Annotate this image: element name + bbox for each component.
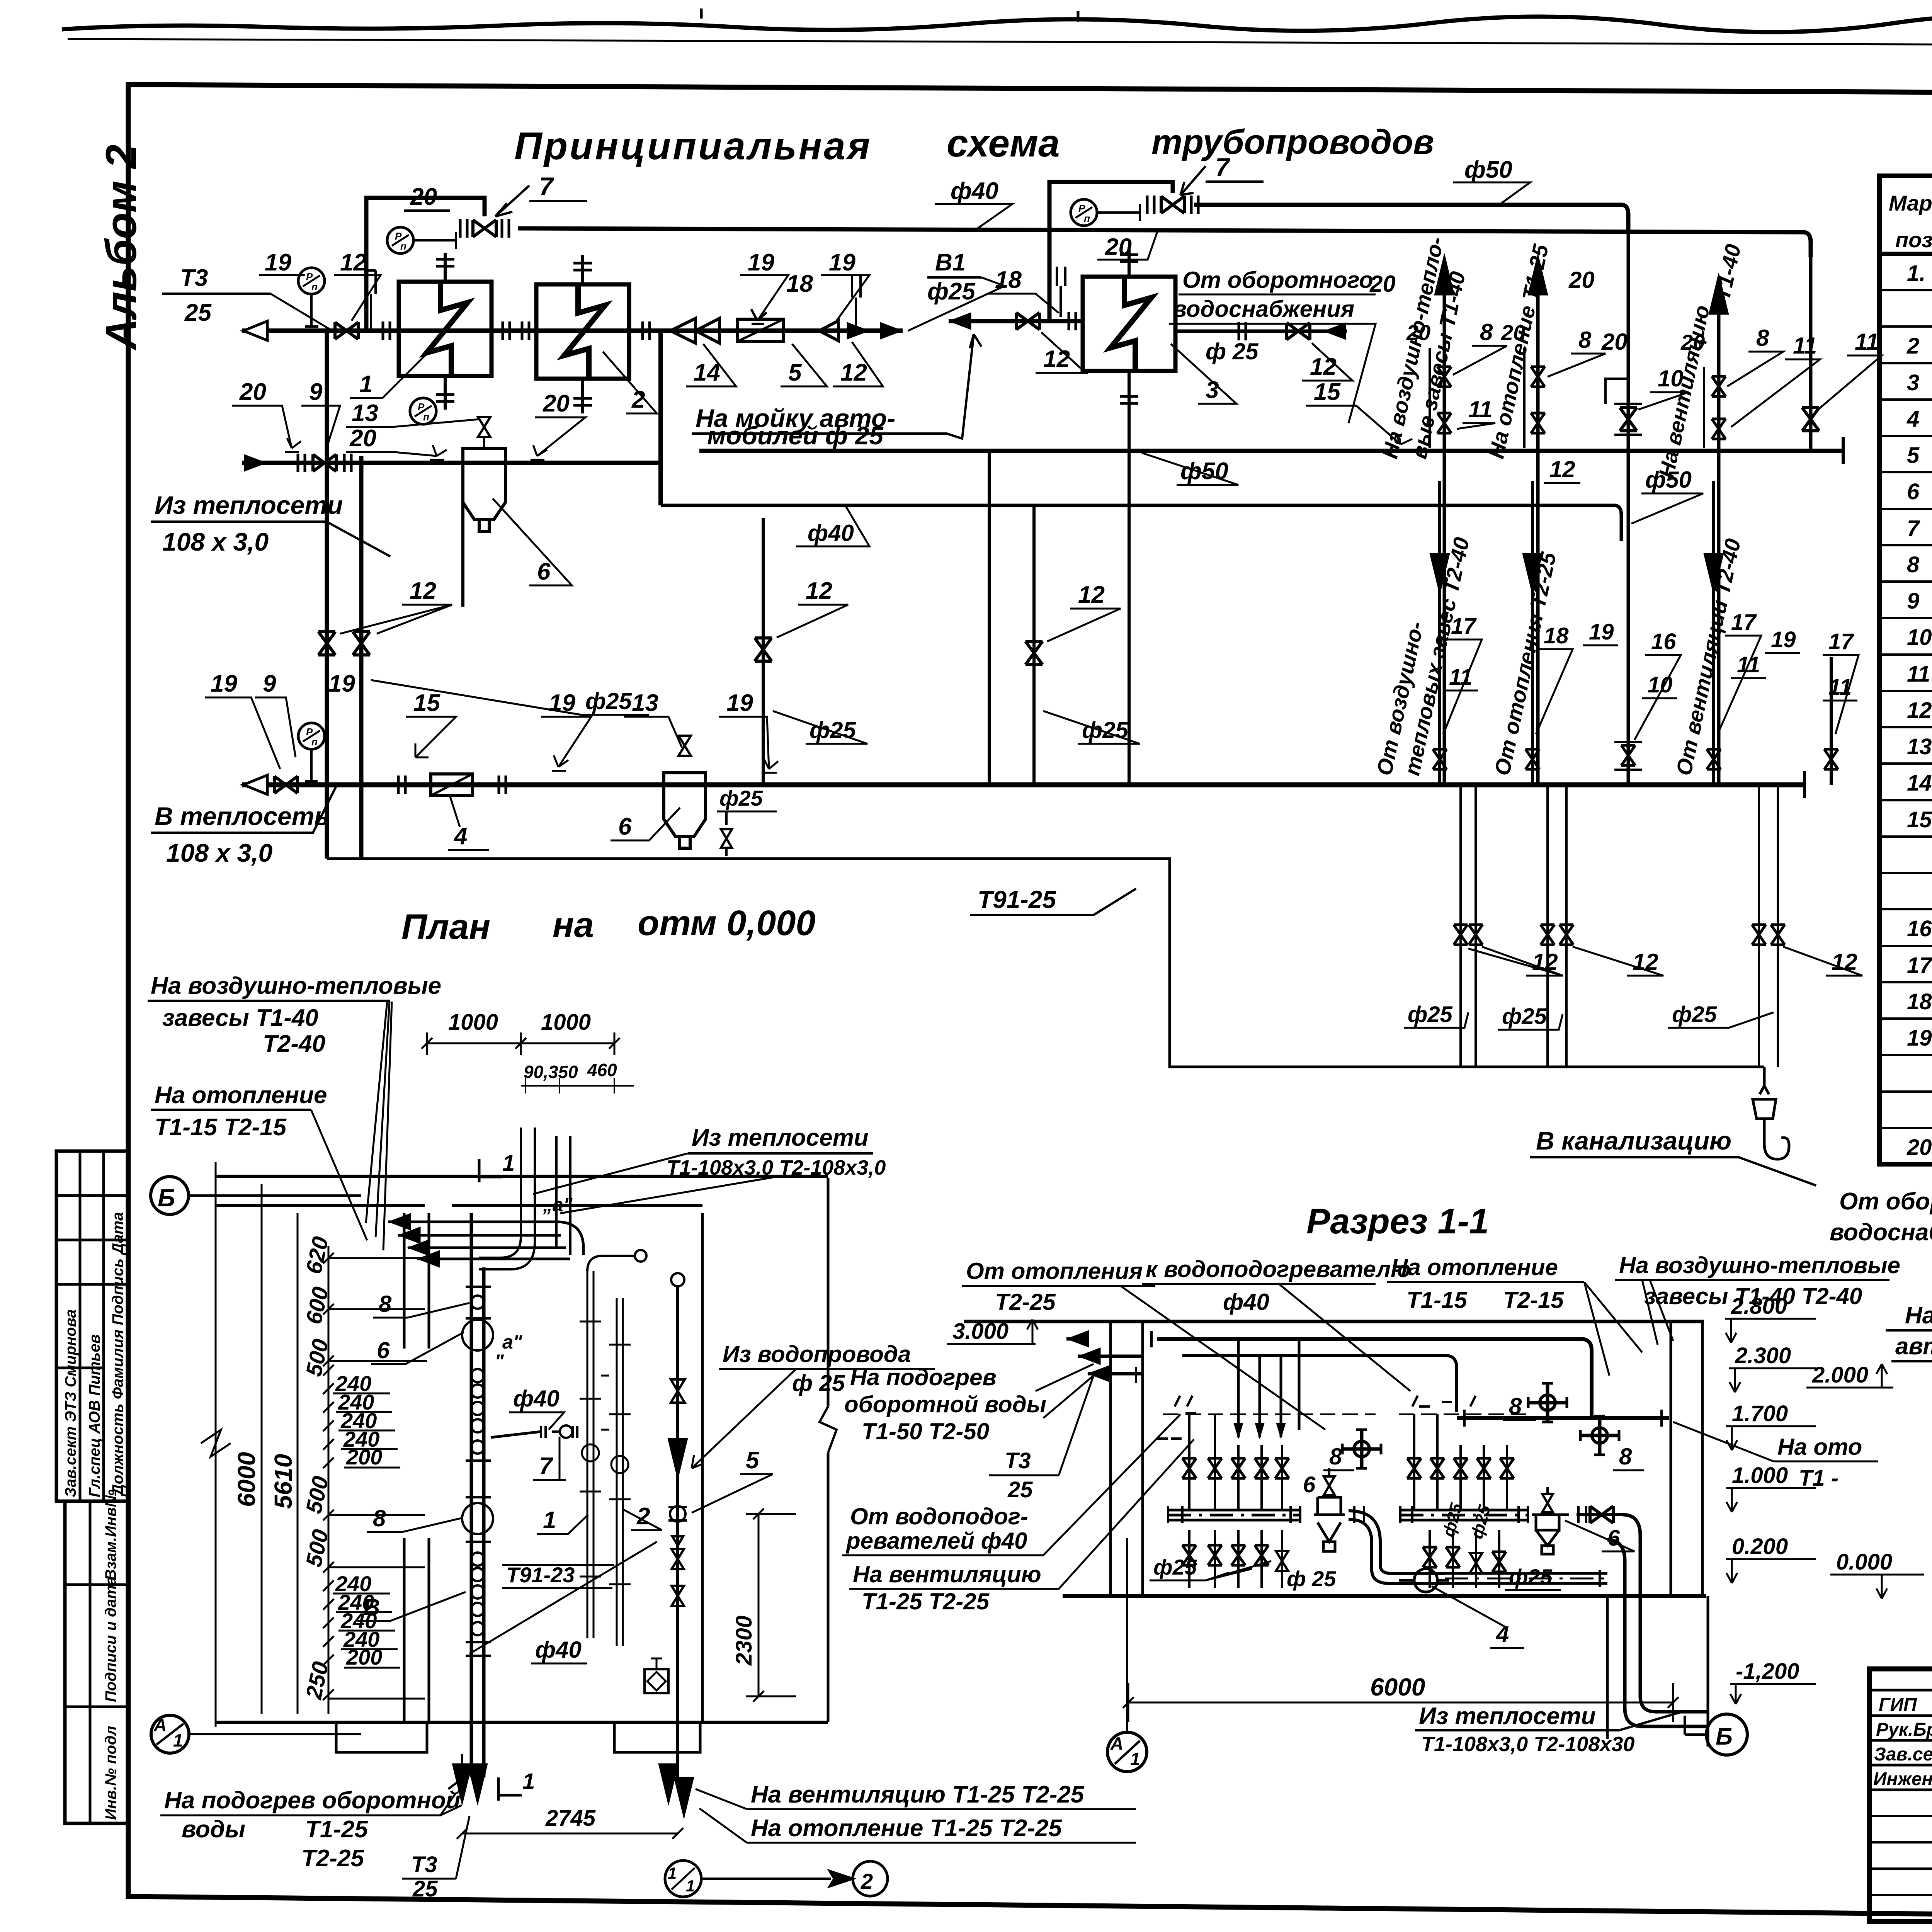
svg-text:Т2-15: Т2-15 bbox=[1503, 1287, 1564, 1313]
svg-text:6: 6 bbox=[1607, 1526, 1620, 1551]
svg-text:9: 9 bbox=[1907, 588, 1919, 614]
svg-text:7: 7 bbox=[539, 1453, 553, 1480]
gauge 20 upper bbox=[387, 227, 413, 253]
svg-text:13: 13 bbox=[632, 690, 658, 716]
svg-text:автомобилей: автомобилей bbox=[1895, 1333, 1932, 1360]
dim vert line chain small bbox=[297, 1213, 299, 1714]
spec table header bbox=[1889, 191, 1932, 252]
drain square bbox=[645, 1669, 668, 1693]
bend pipe from manifold1 down right bbox=[1349, 1511, 1445, 1573]
leader мойку arrow up bbox=[947, 334, 981, 439]
svg-text:18: 18 bbox=[1907, 989, 1932, 1014]
svg-text:16: 16 bbox=[1651, 629, 1676, 654]
heat exchanger 1 bbox=[399, 282, 492, 376]
svg-text:19: 19 bbox=[748, 249, 774, 276]
svg-text:20: 20 bbox=[1906, 1135, 1932, 1160]
right wall bbox=[1671, 1321, 1702, 1596]
valve on водопровод bbox=[671, 1379, 685, 1403]
mud catcher section 1 bbox=[1314, 1497, 1345, 1551]
водопровод riser bbox=[676, 1287, 679, 1777]
corner bracket jog bbox=[1605, 379, 1628, 404]
bypass bracket over exchanger 3 bbox=[1049, 182, 1173, 321]
svg-text:ф25: ф25 bbox=[585, 688, 632, 714]
svg-text:Т1 -: Т1 - bbox=[1799, 1466, 1838, 1491]
svg-text:6: 6 bbox=[618, 813, 632, 840]
risers to В теплосеть verticals bbox=[327, 331, 361, 859]
svg-text:18: 18 bbox=[1544, 623, 1569, 648]
plan walls top bbox=[216, 1176, 828, 1206]
svg-text:6: 6 bbox=[1907, 479, 1920, 504]
dim 2300 bbox=[746, 1509, 796, 1702]
svg-text:1: 1 bbox=[359, 371, 372, 398]
flanges after filter bbox=[499, 776, 506, 794]
svg-text:ф25: ф25 bbox=[927, 278, 976, 305]
svg-text:20: 20 bbox=[1680, 330, 1705, 354]
small valve 13 on inlet mud top bbox=[478, 417, 490, 448]
svg-text:2.000: 2.000 bbox=[1812, 1362, 1868, 1388]
chain ticks and labels bbox=[323, 1253, 427, 1700]
svg-text:От оборотного: От оборотного bbox=[1839, 1188, 1932, 1215]
svg-text:1: 1 bbox=[522, 1769, 535, 1794]
svg-text:12: 12 bbox=[1078, 582, 1105, 608]
svg-text:2.300: 2.300 bbox=[1735, 1343, 1791, 1368]
svg-text:ф25: ф25 bbox=[1082, 717, 1129, 743]
svg-text:19: 19 bbox=[211, 670, 237, 697]
valve 12 on supply inlet bbox=[335, 322, 358, 339]
svg-text:17: 17 bbox=[1828, 629, 1854, 654]
svg-text:8: 8 bbox=[1619, 1444, 1632, 1469]
svg-text:6: 6 bbox=[537, 558, 551, 585]
temperature regulator valve 7 bbox=[473, 220, 496, 237]
left stamp upper rotated texts bbox=[62, 1212, 126, 1497]
check valve 14 bbox=[670, 318, 719, 343]
svg-text:А: А bbox=[1110, 1733, 1123, 1753]
svg-text:Т1-108х3,0 Т2-108х30: Т1-108х3,0 Т2-108х30 bbox=[1421, 1733, 1634, 1756]
four heating pipes with left arrows bbox=[388, 1222, 570, 1259]
svg-text:18: 18 bbox=[786, 270, 813, 297]
regulator 8 mid bbox=[1342, 1430, 1381, 1468]
thermo pocket loop B bbox=[1057, 267, 1065, 317]
axis Б circle bbox=[151, 1177, 189, 1214]
bottom arrows of plan bbox=[452, 1764, 472, 1805]
svg-text:На ото: На ото bbox=[1777, 1434, 1862, 1460]
gauge on return bbox=[298, 723, 325, 749]
exchanger 1 bottom stub bbox=[444, 376, 447, 410]
svg-text:8: 8 bbox=[1907, 552, 1920, 577]
signature rows bbox=[1873, 1695, 1932, 1789]
riser to return crossover (thick) bbox=[658, 331, 663, 505]
svg-text:ф25: ф25 bbox=[1672, 1002, 1717, 1027]
diagonal leader ф40 lower bbox=[469, 1542, 657, 1654]
svg-text:11: 11 bbox=[1468, 396, 1492, 422]
svg-text:12: 12 bbox=[806, 578, 832, 604]
svg-text:Т1-25: Т1-25 bbox=[305, 1816, 368, 1843]
upper valve row manifold 1 bbox=[1189, 1414, 1282, 1509]
collector line L2 with corner bbox=[661, 505, 1621, 541]
hollow arrow to теплосеть bbox=[243, 775, 267, 794]
svg-text:14: 14 bbox=[694, 359, 720, 386]
svg-text:поз.: поз. bbox=[1895, 228, 1932, 252]
svg-text:ф25: ф25 bbox=[810, 717, 856, 743]
svg-text:20: 20 bbox=[1568, 267, 1595, 293]
flanges between exchangers bbox=[503, 321, 510, 340]
svg-text:ф25: ф25 bbox=[1502, 1004, 1547, 1029]
pit walls bbox=[1607, 1596, 1708, 1747]
svg-text:11: 11 bbox=[1737, 652, 1760, 677]
svg-text:водоснабжения: водоснабжения bbox=[1173, 296, 1354, 322]
manifold 2 rows bbox=[1414, 1414, 1507, 1509]
svg-text:Гл.спец АОВ Питьев: Гл.спец АОВ Питьев bbox=[86, 1334, 103, 1497]
drain pairs below collector bbox=[1461, 785, 1476, 1067]
mud catcher section 2 bbox=[1532, 1515, 1569, 1554]
svg-text:2300: 2300 bbox=[731, 1616, 757, 1666]
svg-text:В теплосеть: В теплосеть bbox=[155, 802, 330, 830]
svg-text:11: 11 bbox=[1907, 662, 1930, 687]
footings bottom bbox=[336, 1722, 700, 1752]
svg-text:Из теплосети: Из теплосети bbox=[1419, 1703, 1596, 1730]
svg-text:7: 7 bbox=[1215, 153, 1231, 181]
heat exchanger 2 bbox=[536, 284, 629, 379]
svg-text:На подогрев: На подогрев bbox=[850, 1364, 997, 1390]
svg-text:9: 9 bbox=[309, 379, 323, 405]
svg-text:25: 25 bbox=[1007, 1477, 1033, 1502]
pipe f40 top main bbox=[518, 228, 1811, 257]
svg-text:Рук.Бр.: Рук.Бр. bbox=[1876, 1719, 1932, 1740]
svg-text:11: 11 bbox=[1793, 333, 1817, 359]
end tick return collector bbox=[1803, 771, 1806, 798]
main vertical pipe run in plan bbox=[471, 1213, 484, 1777]
svg-text:12: 12 bbox=[1043, 346, 1070, 372]
svg-text:16: 16 bbox=[1907, 916, 1932, 941]
svg-text:2745: 2745 bbox=[545, 1806, 596, 1831]
pipe На отопление right (1.700 level) bbox=[1457, 1416, 1669, 1420]
svg-text:Т2-40: Т2-40 bbox=[263, 1031, 325, 1057]
floor line bbox=[1063, 1594, 1706, 1598]
arrow between 1/1 and 2 bbox=[701, 1871, 853, 1886]
thermometer pocket 18 bbox=[367, 270, 376, 331]
svg-text:От оборотного: От оборотного bbox=[1182, 267, 1373, 293]
tepl inlet vertical pipes bbox=[521, 1128, 570, 1255]
svg-text:Разрез 1-1: Разрез 1-1 bbox=[1306, 1202, 1489, 1241]
svg-text:План: План bbox=[401, 907, 490, 947]
flange after exchanger 2 bbox=[643, 321, 650, 340]
valve 12 loop B bbox=[1016, 313, 1039, 330]
heat exchanger 3 bbox=[1083, 277, 1175, 371]
manifold 2 pipe bbox=[1400, 1510, 1528, 1520]
exchanger 1 top stub bbox=[444, 253, 447, 282]
svg-text:завесы Т1-40: завесы Т1-40 bbox=[162, 1005, 318, 1031]
svg-text:Т1-25 Т2-25: Т1-25 Т2-25 bbox=[862, 1588, 990, 1614]
svg-text:3.000: 3.000 bbox=[952, 1319, 1009, 1344]
gauge near inlet mud bbox=[410, 398, 436, 424]
svg-text:ф25: ф25 bbox=[1509, 1565, 1553, 1589]
ticks on wall left bbox=[1157, 1413, 1196, 1439]
svg-text:13: 13 bbox=[1907, 734, 1932, 759]
svg-text:20: 20 bbox=[239, 379, 266, 405]
svg-text:7: 7 bbox=[1907, 516, 1920, 541]
svg-text:12: 12 bbox=[1832, 949, 1857, 975]
svg-text:8: 8 bbox=[373, 1505, 386, 1531]
big bend pipe to pit bbox=[1623, 1515, 1708, 1712]
svg-text:схема: схема bbox=[947, 122, 1060, 165]
sewer funnel bbox=[1753, 1067, 1789, 1159]
svg-text:15: 15 bbox=[413, 690, 440, 716]
elevation marks right bbox=[1731, 1294, 1892, 1684]
svg-text:5: 5 bbox=[746, 1447, 760, 1474]
svg-text:На воздушно-тепловые: На воздушно-тепловые bbox=[151, 973, 441, 999]
svg-text:25: 25 bbox=[184, 299, 212, 326]
svg-text:На вентиляцию Т1-25 Т2-25: На вентиляцию Т1-25 Т2-25 bbox=[751, 1781, 1085, 1808]
svg-text:ф25: ф25 bbox=[1153, 1555, 1197, 1579]
svg-text:11: 11 bbox=[1449, 665, 1472, 690]
svg-text:На отопление: На отопление bbox=[1391, 1254, 1558, 1280]
valve 12 on riser 1 bbox=[318, 632, 335, 655]
svg-text:На мойку: На мойку bbox=[1905, 1302, 1932, 1329]
lower valves manifold 2 bbox=[1430, 1530, 1499, 1588]
svg-text:12: 12 bbox=[1907, 698, 1932, 723]
dim vert line 5610 bbox=[261, 1184, 263, 1714]
solid arrow end of loop A supply bbox=[880, 322, 903, 339]
branch От оборотного водоснабжения f25 bbox=[1177, 330, 1347, 333]
svg-text:8: 8 bbox=[1509, 1393, 1522, 1419]
regulator 8 upper right pair bbox=[1528, 1383, 1567, 1422]
svg-text:108 х 3,0: 108 х 3,0 bbox=[166, 838, 273, 867]
svg-text:10: 10 bbox=[1907, 625, 1932, 650]
wall break zigzag bbox=[820, 1406, 837, 1453]
svg-text:Инв.№ подл: Инв.№ подл bbox=[102, 1726, 119, 1820]
svg-text:1.700: 1.700 bbox=[1732, 1401, 1788, 1426]
svg-text:На подогрев оборотной: На подогрев оборотной bbox=[164, 1787, 461, 1814]
svg-text:90,350: 90,350 bbox=[524, 1062, 578, 1082]
svg-text:17: 17 bbox=[1451, 614, 1477, 639]
svg-text:Т3: Т3 bbox=[1005, 1448, 1031, 1473]
drain line to sewer bbox=[327, 859, 1764, 1067]
svg-text:Т2-25: Т2-25 bbox=[995, 1289, 1056, 1315]
svg-text:6000: 6000 bbox=[233, 1452, 260, 1507]
small registration marks top bbox=[701, 9, 1078, 22]
svg-text:Принципиальная: Принципиальная bbox=[514, 124, 872, 168]
svg-text:Из теплосети: Из теплосети bbox=[155, 491, 343, 519]
svg-text:6: 6 bbox=[1303, 1472, 1316, 1497]
left stamp lower rotated texts bbox=[102, 1490, 119, 1820]
collector line L1 bbox=[699, 449, 1843, 453]
exchanger 2 bottom stub bbox=[581, 379, 584, 413]
svg-text:18: 18 bbox=[995, 267, 1022, 293]
svg-text:Инжен.: Инжен. bbox=[1873, 1769, 1932, 1789]
riser 4 with valve 11 bbox=[1809, 255, 1813, 451]
filter box 4 bbox=[431, 774, 473, 796]
section mark 1 top bbox=[479, 1159, 502, 1182]
svg-text:20: 20 bbox=[349, 425, 376, 452]
svg-text:-1,200: -1,200 bbox=[1736, 1659, 1799, 1684]
gauge loop B bbox=[1071, 199, 1097, 226]
svg-text:Альбом 2: Альбом 2 bbox=[97, 145, 145, 351]
svg-text:2: 2 bbox=[636, 1503, 650, 1530]
svg-text:19: 19 bbox=[1771, 627, 1796, 652]
svg-text:1.000: 1.000 bbox=[1732, 1463, 1788, 1488]
svg-text:Т2-25: Т2-25 bbox=[301, 1845, 364, 1872]
svg-text:Из водопровода: Из водопровода bbox=[723, 1341, 911, 1367]
svg-text:Т91-23: Т91-23 bbox=[506, 1563, 575, 1587]
svg-text:0.200: 0.200 bbox=[1732, 1534, 1788, 1559]
plan walls left inner bbox=[404, 1213, 429, 1722]
pipe into exchanger 3 bbox=[949, 319, 1082, 323]
svg-text:А: А bbox=[153, 1715, 167, 1735]
svg-text:ф 25: ф 25 bbox=[1287, 1566, 1336, 1591]
lower horizontal pipe with item 4 bbox=[1445, 1573, 1607, 1583]
svg-text:ф 25: ф 25 bbox=[792, 1370, 845, 1396]
svg-text:1: 1 bbox=[686, 1877, 695, 1895]
axis Б leader bbox=[189, 1194, 361, 1197]
svg-text:ГИП: ГИП bbox=[1879, 1695, 1917, 1715]
svg-text:Должность Фамилия Подпись Дата: Должность Фамилия Подпись Дата bbox=[109, 1212, 126, 1497]
title block grid bbox=[1869, 1669, 1932, 1922]
valve pair right of manifold2 bbox=[1577, 1513, 1623, 1516]
Из теплосети inlet arrow assembly bbox=[244, 454, 267, 471]
svg-text:ревателей ф40: ревателей ф40 bbox=[845, 1528, 1027, 1554]
svg-text:отм 0,000: отм 0,000 bbox=[638, 903, 816, 943]
svg-text:19: 19 bbox=[1589, 619, 1614, 645]
svg-text:20: 20 bbox=[543, 390, 570, 417]
svg-text:ф50: ф50 bbox=[1180, 458, 1228, 485]
plan walls right bbox=[702, 1178, 828, 1722]
svg-text:10: 10 bbox=[1648, 672, 1673, 697]
svg-text:9: 9 bbox=[263, 670, 276, 697]
svg-text:20: 20 bbox=[410, 184, 437, 210]
valve 12 on riser 2 bbox=[353, 632, 370, 655]
svg-text:0.000: 0.000 bbox=[1836, 1549, 1892, 1575]
svg-text:20: 20 bbox=[1105, 234, 1132, 260]
top dim 1000 1000 bbox=[427, 1032, 614, 1055]
thin top line bbox=[68, 39, 1932, 47]
svg-text:15: 15 bbox=[1314, 379, 1341, 405]
vertical drops from ceiling pipes bbox=[1238, 1339, 1299, 1437]
svg-text:17: 17 bbox=[1731, 610, 1757, 635]
svg-text:20: 20 bbox=[1369, 271, 1396, 297]
spec table rows bbox=[1906, 260, 1932, 1160]
svg-text:водоснабжения ф25: водоснабжения ф25 bbox=[1830, 1219, 1932, 1246]
svg-text:Марка: Марка bbox=[1889, 191, 1932, 215]
svg-text:От отопления: От отопления bbox=[966, 1258, 1143, 1284]
leader T3 to pipe bbox=[270, 294, 332, 331]
svg-text:ф40: ф40 bbox=[1223, 1289, 1269, 1315]
svg-text:20: 20 bbox=[1406, 320, 1430, 345]
arrow into valve 7b bbox=[1180, 166, 1206, 195]
svg-text:Взам.Инв№: Взам.Инв№ bbox=[102, 1490, 119, 1580]
svg-text:7: 7 bbox=[539, 172, 554, 201]
loop B supply inlet arrow bbox=[949, 313, 971, 330]
leaders завесы to pipes bbox=[366, 1002, 392, 1250]
svg-text:ф40: ф40 bbox=[951, 178, 998, 204]
svg-text:14: 14 bbox=[1907, 770, 1932, 796]
lower riser 4739 with valve bbox=[1830, 657, 1833, 785]
exchanger 2 top stub bbox=[581, 255, 584, 284]
axis А/1 circle section bbox=[1107, 1732, 1147, 1772]
svg-text:12: 12 bbox=[1549, 456, 1575, 482]
dim верт line 6000 bbox=[215, 1162, 217, 1727]
svg-text:6000: 6000 bbox=[1370, 1673, 1425, 1701]
risers 1 and 2 in plan bbox=[587, 1271, 623, 1646]
svg-text:Б: Б bbox=[158, 1184, 175, 1212]
counter 5 on водопровод bbox=[668, 1507, 687, 1520]
riser ф50 with valve 10 bbox=[1627, 232, 1630, 785]
svg-text:Т1-15 Т2-15: Т1-15 Т2-15 bbox=[155, 1114, 287, 1141]
svg-text:Т1-15: Т1-15 bbox=[1406, 1287, 1468, 1313]
svg-text:1: 1 bbox=[502, 1151, 515, 1176]
svg-text:1.: 1. bbox=[1907, 261, 1925, 286]
return risers with down arrows (T2) bbox=[1438, 481, 1441, 785]
svg-text:Зав.сект ЭТЗ Смирнова: Зав.сект ЭТЗ Смирнова bbox=[62, 1310, 79, 1497]
exchanger 3 bottom stub and riser down bbox=[1128, 371, 1131, 785]
svg-text:На отопление: На отопление bbox=[155, 1082, 327, 1109]
svg-text:Из теплосети: Из теплосети bbox=[692, 1124, 869, 1151]
svg-text:108 х 3,0: 108 х 3,0 bbox=[162, 527, 269, 556]
axis 1/1 circle bottom bbox=[665, 1861, 701, 1897]
svg-text:12: 12 bbox=[1310, 354, 1337, 380]
under ceiling pipe bundle bbox=[1157, 1339, 1592, 1416]
svg-text:2: 2 bbox=[631, 386, 645, 413]
svg-text:ф40: ф40 bbox=[513, 1386, 560, 1412]
fittings chain on main run bbox=[462, 1287, 493, 1656]
svg-text:ф50: ф50 bbox=[1464, 156, 1512, 183]
riser group 2: отопление bbox=[1536, 294, 1540, 785]
plan wall bottom bbox=[216, 1721, 828, 1724]
svg-text:мобилей ф 25: мобилей ф 25 bbox=[707, 421, 884, 450]
svg-text:20: 20 bbox=[1501, 320, 1525, 345]
svg-text:460: 460 bbox=[587, 1060, 617, 1080]
svg-text:От водоподог-: От водоподог- bbox=[850, 1503, 1028, 1529]
svg-text:Т91-25: Т91-25 bbox=[978, 886, 1056, 913]
svg-text:8: 8 bbox=[1480, 319, 1493, 345]
risers from crossover to collector bbox=[762, 518, 765, 785]
svg-text:В: В bbox=[363, 1594, 380, 1620]
valve 12 after meter bbox=[819, 321, 838, 341]
svg-text:20: 20 bbox=[1601, 329, 1628, 355]
pipe f50 top (loop B) bbox=[1194, 205, 1628, 232]
elbows to horizontal bbox=[479, 1236, 535, 1269]
svg-text:2: 2 bbox=[861, 1869, 873, 1893]
spec table grid bbox=[1879, 176, 1932, 1164]
inlet pipe from теплосеть bbox=[267, 461, 661, 465]
svg-text:17: 17 bbox=[1907, 953, 1932, 978]
svg-text:оборотной воды: оборотной воды bbox=[844, 1391, 1046, 1417]
svg-text:1000: 1000 bbox=[541, 1010, 591, 1035]
bypass bracket over exchanger 1 bbox=[366, 198, 485, 331]
svg-text:8: 8 bbox=[1329, 1444, 1342, 1469]
svg-text:12: 12 bbox=[840, 359, 867, 386]
svg-text:": " bbox=[495, 1350, 504, 1372]
svg-text:19: 19 bbox=[829, 249, 855, 276]
torn paper top edge bbox=[62, 12, 1932, 34]
svg-text:15: 15 bbox=[1907, 807, 1932, 832]
riser group 1: воздушно-тепловые завесы bbox=[1443, 294, 1446, 785]
section mark 1 bottom bbox=[498, 1777, 522, 1801]
svg-text:3: 3 bbox=[1907, 370, 1919, 395]
flanges before filter bbox=[398, 776, 405, 794]
svg-text:ф40: ф40 bbox=[808, 520, 854, 546]
svg-text:19: 19 bbox=[328, 670, 355, 697]
left black arrows На подогрев bbox=[1078, 1348, 1100, 1365]
axis А/1 circle left bbox=[151, 1715, 189, 1753]
left stamp lower block bbox=[65, 1501, 128, 1823]
svg-text:1000: 1000 bbox=[448, 1010, 498, 1035]
svg-text:2.800: 2.800 bbox=[1731, 1294, 1787, 1319]
axis 2 circle bottom bbox=[853, 1861, 888, 1896]
svg-text:12: 12 bbox=[1633, 949, 1658, 975]
svg-text:5610: 5610 bbox=[269, 1454, 297, 1509]
svg-text:25: 25 bbox=[412, 1876, 438, 1901]
svg-text:1: 1 bbox=[1130, 1749, 1140, 1769]
